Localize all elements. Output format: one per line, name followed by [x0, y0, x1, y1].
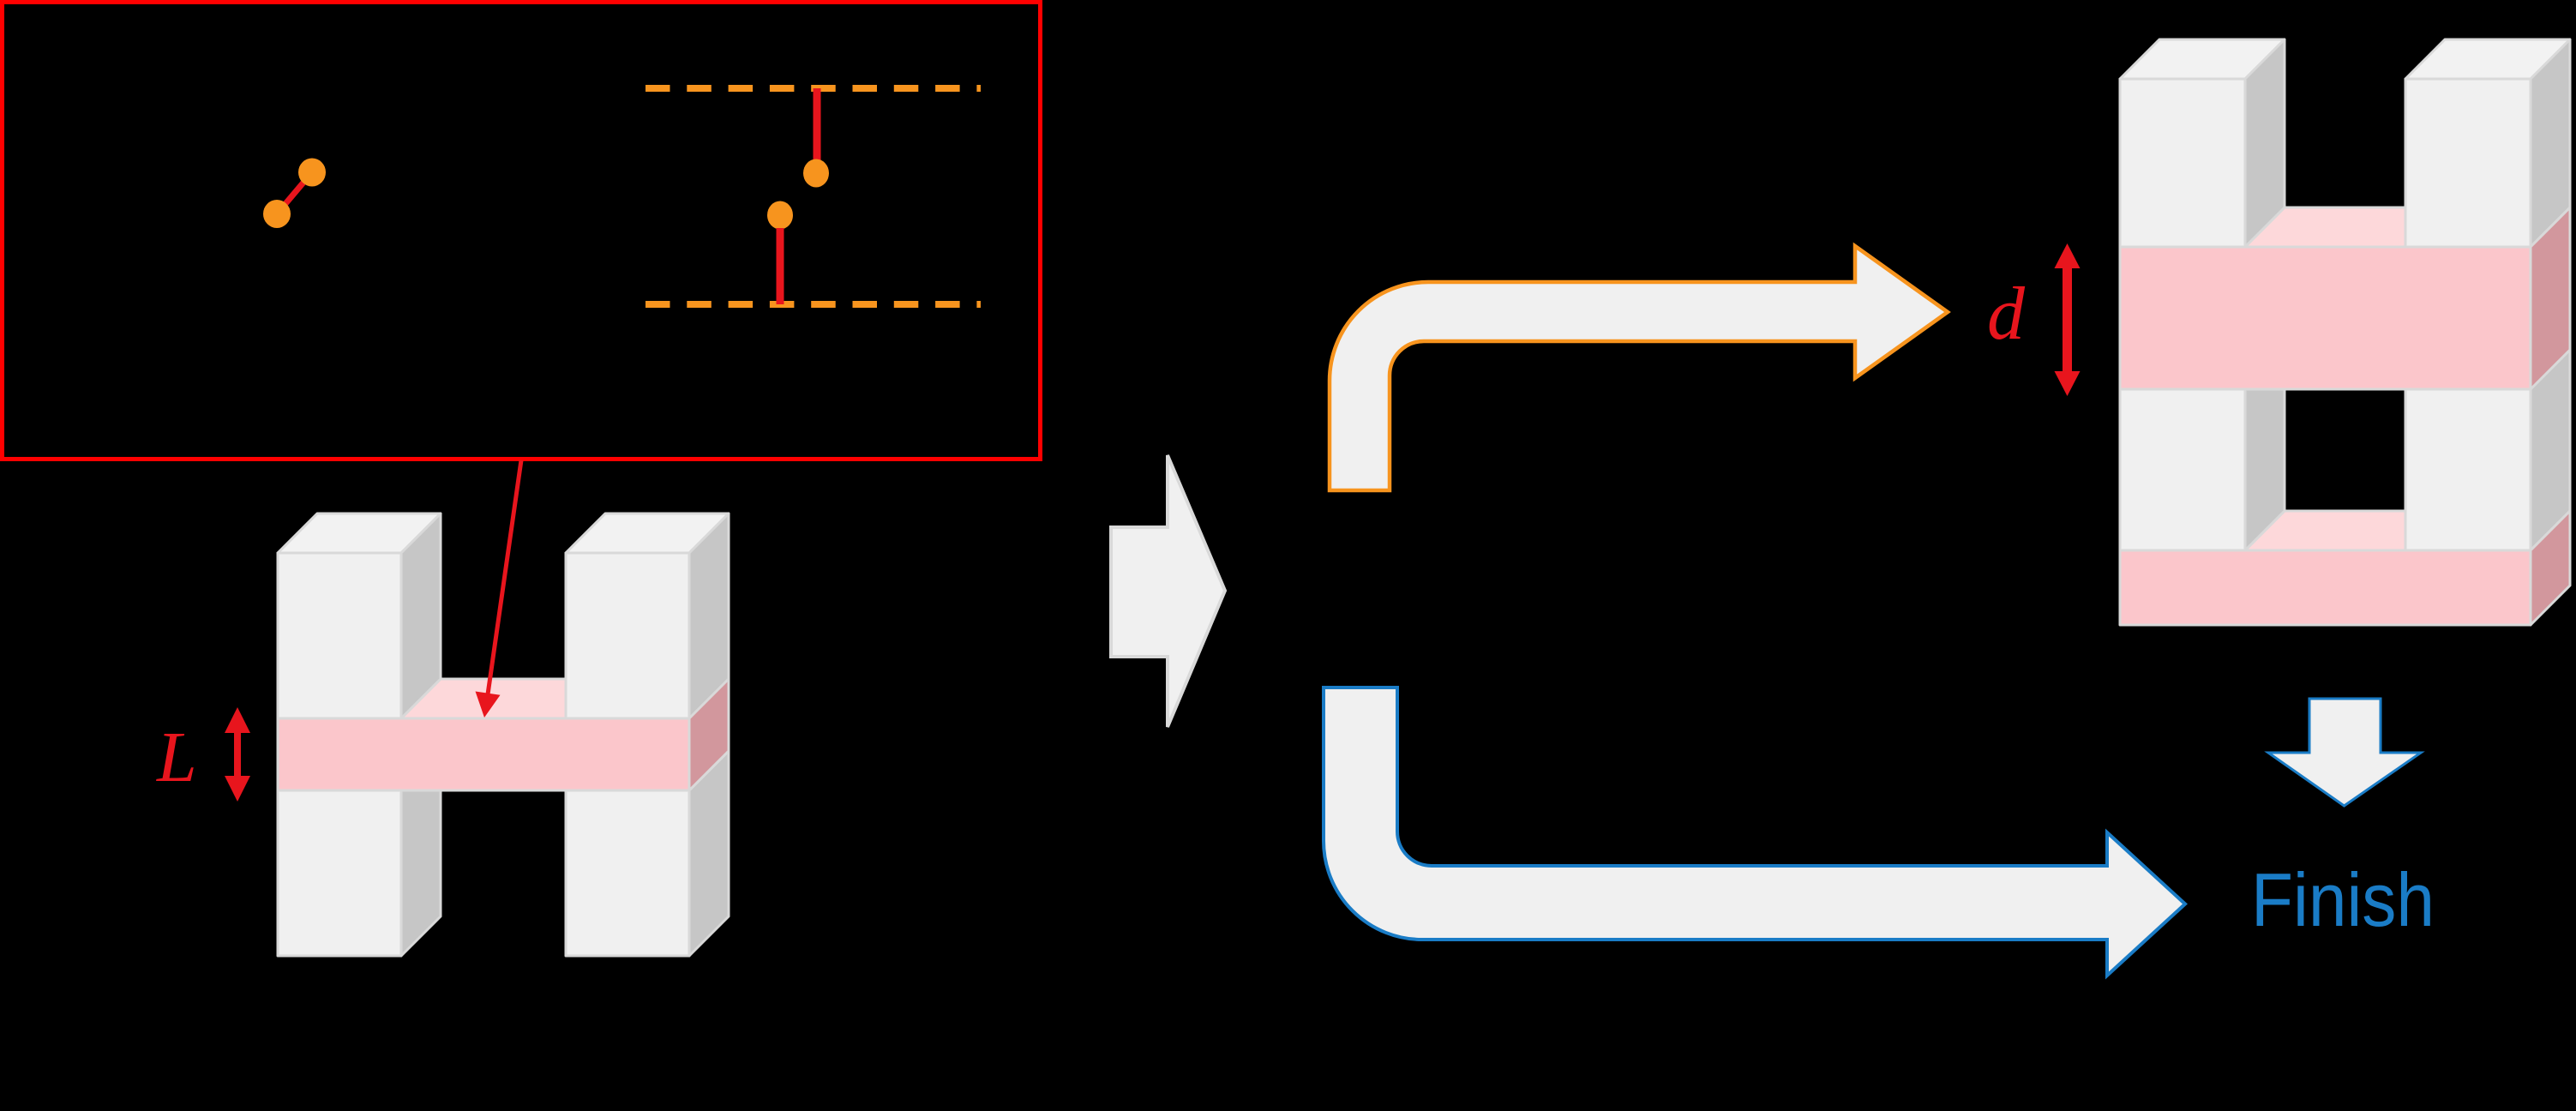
band1 side face [2531, 207, 2570, 389]
top-right column [2405, 39, 2570, 79]
band2 front face [2120, 550, 2531, 625]
svg-text:Finish: Finish [2251, 857, 2435, 942]
orange dashed line top [646, 85, 981, 92]
slab top face [401, 679, 605, 718]
orange dot A [803, 159, 829, 188]
svg-text:d: d [1987, 273, 2026, 356]
blue down block arrow [2268, 699, 2421, 806]
right double-H structure [2120, 39, 2570, 625]
band1 front face [2120, 247, 2531, 389]
slab side face [689, 679, 729, 790]
upper-left column [278, 513, 441, 553]
blue elbow arrow [1324, 688, 2185, 976]
band1 top face [2245, 207, 2445, 247]
lower-right column [689, 751, 729, 956]
top-left column [2120, 39, 2285, 79]
orange dot D [263, 200, 291, 228]
upper-right column [566, 513, 729, 553]
red bond line between left dot pair [277, 172, 312, 214]
orange dot C [298, 159, 326, 187]
mid-left column [2245, 350, 2285, 550]
lower-left column [401, 751, 441, 956]
red leader arrow from box to slab [476, 460, 522, 718]
orange dashed line bottom [646, 301, 981, 308]
orange elbow arrow [1330, 246, 1948, 490]
band2 side face [2531, 511, 2570, 625]
svg-text:L: L [156, 718, 197, 797]
orange dot B [767, 201, 793, 230]
center big gray arrow [1111, 455, 1225, 727]
red tether line from top dashed line to dot A [814, 88, 821, 160]
mid-right column [2531, 350, 2570, 550]
L dimension double arrow [225, 707, 250, 802]
slab front face [278, 718, 689, 790]
red tether line from dot B to bottom dashed line [777, 228, 784, 304]
d dimension double arrow [2055, 243, 2081, 396]
red inset box [3, 3, 1041, 459]
band2 top face [2245, 511, 2445, 550]
left H structure [278, 513, 729, 956]
